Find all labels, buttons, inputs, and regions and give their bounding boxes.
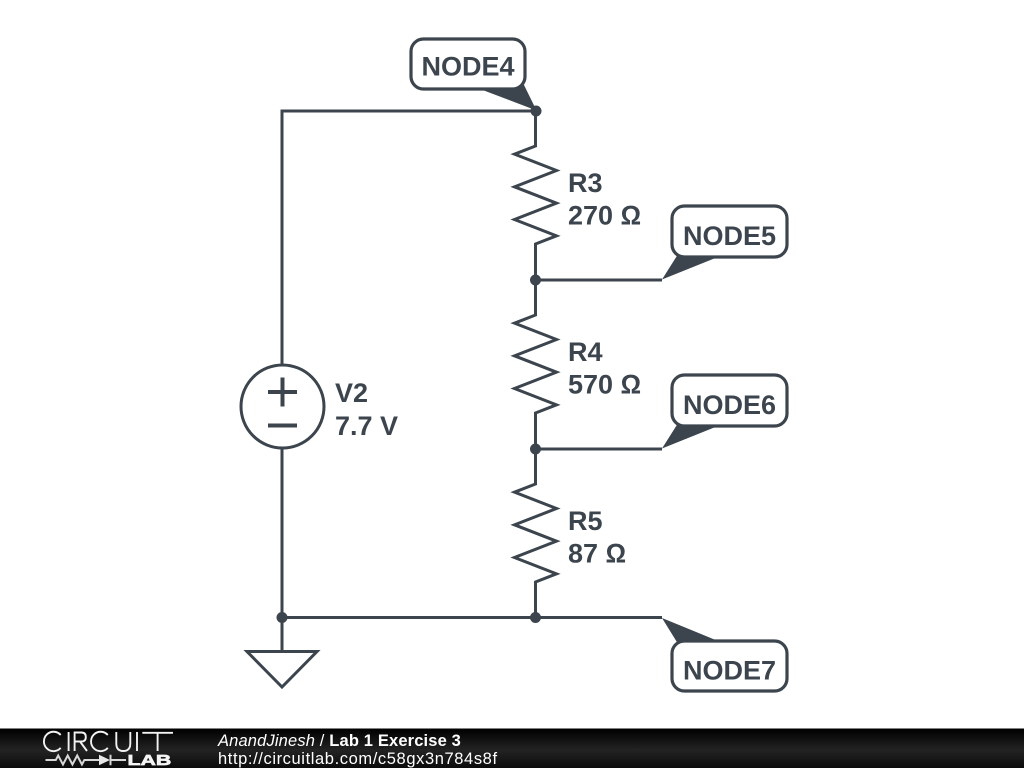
- svg-text:V2: V2: [335, 378, 368, 408]
- junction node dot bottom right: [530, 612, 541, 623]
- svg-text:NODE5: NODE5: [683, 221, 776, 251]
- node label NODE4 tail: [476, 85, 537, 111]
- logo CIRCUIT wordmark: [44, 732, 173, 751]
- resistor R4: [515, 279, 557, 450]
- svg-text:NODE4: NODE4: [421, 52, 514, 82]
- node label NODE5 tail: [662, 256, 721, 280]
- junction node dot NODE6: [530, 444, 541, 455]
- resistor R5 labels: [568, 506, 626, 569]
- resistor R3: [515, 110, 557, 282]
- node label NODE4: [411, 39, 525, 89]
- junction node dot top (NODE4): [531, 106, 542, 117]
- wire left vertical lower: [281, 449, 284, 620]
- svg-text:AnandJinesh / Lab 1 Exercise 3: AnandJinesh / Lab 1 Exercise 3: [217, 732, 461, 750]
- svg-text:NODE6: NODE6: [683, 390, 776, 420]
- wire bottom horizontal: [281, 616, 663, 619]
- junction node dot bottom left: [277, 612, 288, 623]
- svg-text:570 Ω: 570 Ω: [568, 370, 641, 400]
- svg-text:NODE7: NODE7: [683, 656, 776, 686]
- wire NODE6 horizontal: [536, 448, 663, 451]
- junction node dot NODE5: [530, 275, 541, 286]
- ground: [247, 618, 317, 688]
- voltage source V2 labels: [335, 378, 398, 441]
- svg-text:7.7 V: 7.7 V: [335, 411, 398, 441]
- resistor R5: [515, 448, 557, 619]
- wire top horizontal: [282, 110, 536, 113]
- node label NODE6: [672, 375, 787, 426]
- svg-text:R4: R4: [568, 337, 603, 367]
- footer bar: [0, 729, 1024, 768]
- svg-text:87 Ω: 87 Ω: [568, 539, 626, 569]
- voltage source V2: [241, 365, 324, 448]
- svg-text:R5: R5: [568, 506, 603, 536]
- node label NODE6 tail: [662, 425, 721, 449]
- svg-text:270 Ω: 270 Ω: [568, 201, 641, 231]
- svg-text:LAB: LAB: [128, 751, 172, 768]
- svg-text:R3: R3: [568, 168, 603, 198]
- logo resistor squiggle: [46, 756, 100, 765]
- node label NODE7: [672, 641, 787, 691]
- svg-text:http://circuitlab.com/c58gx3n7: http://circuitlab.com/c58gx3n784s8f: [218, 750, 498, 768]
- node label NODE5: [672, 206, 787, 257]
- node label NODE7 tail: [662, 618, 721, 642]
- wire left vertical upper: [281, 110, 284, 365]
- resistor R4 labels: [568, 337, 641, 400]
- logo diode: [99, 755, 126, 765]
- wire NODE5 horizontal: [536, 279, 663, 282]
- resistor R3 labels: [568, 168, 641, 231]
